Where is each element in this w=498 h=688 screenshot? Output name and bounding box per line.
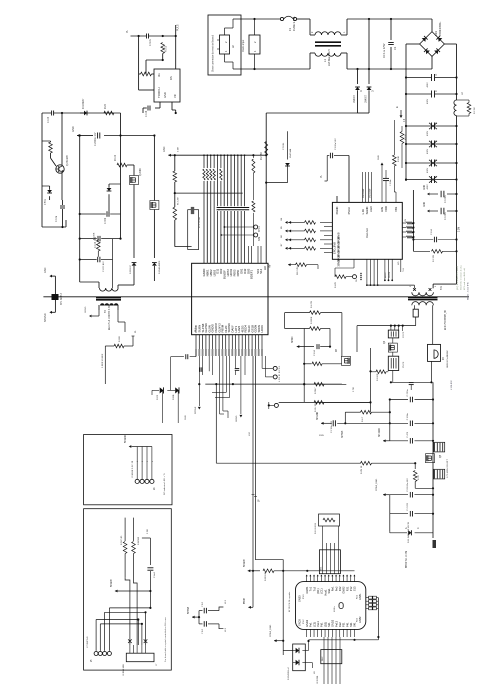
svg-text:(C1): (C1) xyxy=(320,588,324,593)
svg-text:R 5M7: R 5M7 xyxy=(315,387,317,394)
svg-text:R 7K: R 7K xyxy=(418,475,420,480)
svg-text:L 5GL80Y: L 5GL80Y xyxy=(451,380,453,390)
svg-text:C 100u: C 100u xyxy=(407,412,409,420)
svg-text:GNB0: GNB0 xyxy=(299,595,302,602)
svg-text:AT 89 C4-24 crystals: AT 89 C4-24 crystals xyxy=(288,591,291,612)
svg-text:GND2: GND2 xyxy=(305,619,309,627)
svg-text:R.2M 58: R.2M 58 xyxy=(361,465,363,474)
svg-text:HV: HV xyxy=(269,264,272,268)
svg-text:SGND: SGND xyxy=(365,207,369,215)
svg-text:R 2.2K: R 2.2K xyxy=(474,107,476,114)
svg-text:BOOT: BOOT xyxy=(385,271,387,278)
svg-text:GND: GND xyxy=(163,146,166,152)
svg-text:EPD_8NB: EPD_8NB xyxy=(333,242,337,254)
svg-text:1N4148W: 1N4148W xyxy=(370,189,372,198)
svg-text:(D2): (D2) xyxy=(323,622,327,627)
svg-text:C 104: C 104 xyxy=(431,228,433,235)
svg-text:R 10R: R 10R xyxy=(398,156,400,162)
svg-text:D 1N4937: D 1N4937 xyxy=(83,98,85,109)
svg-text:C 10u: C 10u xyxy=(56,215,58,222)
svg-text:VDD: VDD xyxy=(384,206,388,212)
svg-text:R 680K: R 680K xyxy=(311,316,313,324)
svg-text:BBOP SC 10.7M: BBOP SC 10.7M xyxy=(406,551,408,568)
svg-text:C5 C6: C5 C6 xyxy=(403,361,405,368)
svg-text:fitted Ghz monitors it also,: fitted Ghz monitors it also, xyxy=(460,264,463,290)
svg-text:D: D xyxy=(360,90,363,92)
svg-text:(C2): (C2) xyxy=(312,622,316,627)
svg-text:(R7) is marked 1% used,: (R7) is marked 1% used, xyxy=(456,266,459,290)
svg-text:LD: LD xyxy=(314,671,316,674)
svg-text:C 100n: C 100n xyxy=(390,178,392,186)
svg-text:HV: HV xyxy=(263,266,267,270)
svg-text:D 1N5819 x2: D 1N5819 x2 xyxy=(288,666,290,680)
svg-text:GNB2: GNB2 xyxy=(359,616,362,623)
svg-text:Z 5V1: Z 5V1 xyxy=(45,198,47,205)
svg-text:400V: 400V xyxy=(427,167,429,173)
svg-text:J3 4N5K 0.5V .28: J3 4N5K 0.5V .28 xyxy=(132,460,134,478)
svg-text:2.7M: 2.7M xyxy=(353,387,355,392)
svg-text:3.5M: 3.5M xyxy=(178,147,180,152)
svg-text:Tx1: Tx1 xyxy=(309,586,313,591)
svg-text:BDEF1: BDEF1 xyxy=(250,270,254,279)
svg-text:GND: GND xyxy=(72,126,75,132)
svg-text:C 472: C 472 xyxy=(105,217,107,224)
svg-text:GND: GND xyxy=(44,267,47,273)
svg-text:C 100n 50V: C 100n 50V xyxy=(335,138,337,150)
svg-text:1N4744A: 1N4744A xyxy=(289,148,292,158)
svg-text:SPGND: SPGND xyxy=(317,411,319,420)
svg-text:UT 8NP NG: UT 8NP NG xyxy=(87,636,89,648)
svg-text:SGND: SGND xyxy=(85,306,87,313)
svg-text:400V: 400V xyxy=(427,184,429,190)
svg-text:R 22: R 22 xyxy=(105,103,107,109)
svg-text:C: C xyxy=(435,140,438,142)
svg-text:(D1): (D1) xyxy=(316,588,320,593)
svg-text:C 4n3: C 4n3 xyxy=(154,571,156,578)
svg-text:R 100: R 100 xyxy=(115,154,117,161)
svg-text:1N4007: 1N4007 xyxy=(366,94,368,103)
svg-text:P1.2: P1.2 xyxy=(303,619,305,624)
svg-text:Q 2SC945: Q 2SC945 xyxy=(67,155,69,166)
svg-text:For board with a crystal contr: For board with a crystal controlled xx M… xyxy=(164,616,167,662)
svg-text:D FR107: D FR107 xyxy=(130,264,132,274)
svg-text:Manufact: Manufact xyxy=(366,228,369,238)
svg-text:R 680: R 680 xyxy=(119,335,121,342)
svg-text:R8 2.2M: R8 2.2M xyxy=(297,267,299,275)
svg-text:J8 5V8B: J8 5V8B xyxy=(317,675,319,684)
svg-text:T#1: T#1 xyxy=(440,285,443,290)
svg-text:CON5_GND: CON5_GND xyxy=(270,624,272,637)
svg-text:PVCC: PVCC xyxy=(347,207,351,215)
svg-text:SP GND: SP GND xyxy=(379,428,381,437)
svg-text:5P5N8: 5P5N8 xyxy=(188,606,190,614)
svg-text:GND: GND xyxy=(424,202,426,207)
svg-text:1N4007: 1N4007 xyxy=(354,94,356,103)
svg-text:4 MHz: 4 MHz xyxy=(334,606,336,612)
svg-text:C: C xyxy=(435,122,438,124)
svg-text:GND2: GND2 xyxy=(331,619,335,627)
svg-text:Re2: Re2 xyxy=(338,622,342,627)
svg-text:R.10 100 B: R.10 100 B xyxy=(315,523,317,534)
svg-text:BR1: BR1 xyxy=(434,30,438,36)
svg-text:C R.5: C R.5 xyxy=(202,628,204,634)
svg-text:R 100K: R 100K xyxy=(94,232,96,240)
svg-text:GNB2: GNB2 xyxy=(342,586,346,594)
svg-text:PULS: PULS xyxy=(177,24,180,31)
svg-text:5V25: 5V25 xyxy=(157,394,159,400)
svg-text:C: C xyxy=(435,74,438,76)
svg-text:R 4.7M: R 4.7M xyxy=(311,301,313,308)
svg-text:C: C xyxy=(435,90,438,92)
svg-text:R.88 10K: R.88 10K xyxy=(265,571,267,581)
svg-text:Vin: Vin xyxy=(157,73,161,77)
svg-text:C 100n: C 100n xyxy=(445,195,447,203)
svg-text:D 1N4148/FR: D 1N4148/FR xyxy=(159,260,161,274)
svg-text:E: E xyxy=(395,106,399,108)
svg-text:R 47K: R 47K xyxy=(405,134,407,140)
svg-text:PGND: PGND xyxy=(335,207,339,215)
svg-text:5PGN8: 5PGN8 xyxy=(244,559,246,567)
svg-text:OUTB: OUTB xyxy=(389,271,391,278)
svg-text:SGND: SGND xyxy=(236,415,238,422)
svg-text:Tx2: Tx2 xyxy=(312,586,316,591)
svg-text:C 4.7u: C 4.7u xyxy=(150,39,152,46)
svg-text:C 103: C 103 xyxy=(48,116,50,123)
svg-text:C.2 68u 400: C.2 68u 400 xyxy=(331,420,333,433)
svg-text:P21: P21 xyxy=(345,586,349,591)
svg-text:Vout1: Vout1 xyxy=(323,589,327,596)
svg-text:TORCH: TORCH xyxy=(157,87,161,98)
svg-text:GND: GND xyxy=(185,415,187,420)
svg-text:Vss1: Vss1 xyxy=(316,621,320,627)
svg-text:B.2 S.1: B.2 S.1 xyxy=(279,365,281,373)
svg-text:SPKN: SPKN xyxy=(292,336,294,343)
svg-text:D: D xyxy=(372,90,375,92)
svg-text:EMI filter 10mH: EMI filter 10mH xyxy=(328,49,331,66)
svg-text:NTC 52.8B: NTC 52.8B xyxy=(199,217,201,228)
svg-text:Pe1: Pe1 xyxy=(309,622,313,627)
svg-text:1N4148W: 1N4148W xyxy=(363,189,365,198)
svg-text:BBNO - C LO 8 W: BBNO - C LO 8 W xyxy=(468,281,470,300)
svg-text:L.IN: L.IN xyxy=(361,209,365,214)
svg-text:2.2M: 2.2M xyxy=(147,529,149,534)
svg-text:HO: HO xyxy=(398,261,400,265)
svg-text:C 222 1KV: C 222 1KV xyxy=(103,261,105,272)
svg-text:GNB1: GNB1 xyxy=(359,593,362,600)
svg-text:EFD 750388PB_8K: EFD 750388PB_8K xyxy=(445,309,447,330)
svg-text:C: C xyxy=(435,176,438,178)
svg-text:C 5V6L: C 5V6L xyxy=(283,142,285,150)
svg-text:CON5_GND: CON5_GND xyxy=(376,478,378,491)
svg-text:C2 C3: C2 C3 xyxy=(403,331,405,338)
svg-text:R BGB8: R BGB8 xyxy=(138,536,140,545)
svg-text:R 100R: R 100R xyxy=(377,373,379,381)
svg-text:GND: GND xyxy=(424,185,426,190)
svg-text:W 2.2M: W 2.2M xyxy=(178,197,180,205)
svg-text:R 2H 38.8: R 2H 38.8 xyxy=(315,401,317,412)
svg-text:Re1: Re1 xyxy=(331,586,335,591)
svg-text:5595: 5595 xyxy=(319,435,325,437)
svg-text:400V: 400V xyxy=(427,130,429,136)
svg-text:Q 2N60: Q 2N60 xyxy=(140,167,142,176)
svg-text:SP5N8: SP5N8 xyxy=(342,430,344,438)
svg-text:C 100n: C 100n xyxy=(445,212,447,220)
svg-text:GND: GND xyxy=(163,92,167,98)
svg-text:5V8B: 5V8B xyxy=(173,394,175,400)
svg-text:Pd1: Pd1 xyxy=(320,622,324,627)
svg-text:P12: P12 xyxy=(349,586,353,591)
svg-text:X2 0.1u 275V: X2 0.1u 275V xyxy=(383,43,386,58)
svg-text:R 47K: R 47K xyxy=(335,281,337,288)
svg-text:R 5GT4G: R 5GT4G xyxy=(121,535,123,545)
svg-text:38NI8: 38NI8 xyxy=(337,259,341,266)
svg-text:R 2.2M: R 2.2M xyxy=(433,255,435,262)
svg-text:B5N8: B5N8 xyxy=(244,598,246,604)
svg-text:S TL100N 03 L8P 7: S TL100N 03 L8P 7 xyxy=(447,458,449,478)
svg-text:5PGN8: 5PGN8 xyxy=(195,406,197,414)
svg-text:FUSE 3.15A: FUSE 3.15A xyxy=(292,16,296,31)
svg-text:5PGN8: 5PGN8 xyxy=(111,579,113,587)
svg-text:C: C xyxy=(435,159,438,161)
svg-text:Slave connector (to next ctrl: Slave connector (to next ctrl board) xyxy=(212,35,215,72)
svg-text:D.11 B40% 58 16V W: D.11 B40% 58 16V W xyxy=(408,521,410,543)
svg-text:EE19 5+6 100KHZ 3.3W: EE19 5+6 100KHZ 3.3W xyxy=(109,304,111,330)
svg-text:C 470: C 470 xyxy=(407,431,409,438)
svg-text:LD0N: LD0N xyxy=(260,325,264,332)
svg-text:C 220u: C 220u xyxy=(407,389,409,397)
svg-text:Pe2: Pe2 xyxy=(334,586,338,591)
svg-text:HIN: HIN xyxy=(380,207,384,212)
svg-text:4P1 and was 4k99 old,: 4P1 and was 4k99 old, xyxy=(464,267,466,290)
svg-text:VB1: VB1 xyxy=(394,206,398,212)
svg-text:DN: DN xyxy=(169,76,173,80)
svg-text:C 104: C 104 xyxy=(146,110,148,117)
svg-text:NT1 NCB-3: NT1 NCB-3 xyxy=(61,292,63,305)
svg-text:C.8 100u 16V: C.8 100u 16V xyxy=(407,478,409,492)
svg-text:GND0: GND0 xyxy=(299,619,302,626)
svg-text:NTC1: NTC1 xyxy=(259,225,261,232)
svg-text:5.8M8 SGND8: 5.8M8 SGND8 xyxy=(102,353,104,368)
svg-text:J6 8NB 98B: J6 8NB 98B xyxy=(123,664,125,676)
svg-text:SB5100 5x8B08M: SB5100 5x8B08M xyxy=(447,350,449,368)
svg-text:P1.0: P1.0 xyxy=(303,594,305,599)
svg-text:400V: 400V xyxy=(427,82,429,88)
svg-text:Mains input: Mains input xyxy=(242,39,245,52)
svg-text:C 104: C 104 xyxy=(314,349,316,356)
svg-text:R 4.7: R 4.7 xyxy=(362,416,364,422)
svg-text:SPGND: SPGND xyxy=(44,313,47,322)
svg-text:400V: 400V xyxy=(427,98,429,104)
svg-text:N.M.: N.M. xyxy=(259,236,261,241)
svg-text:JP: JP xyxy=(259,499,261,502)
svg-text:P31: P31 xyxy=(342,622,346,627)
svg-text:2W06/005W+: 2W06/005W+ xyxy=(439,21,442,36)
svg-text:C1: C1 xyxy=(393,46,397,50)
svg-text:C 2200u 10V: C 2200u 10V xyxy=(95,132,97,146)
svg-text:Sla1: Sla1 xyxy=(327,588,331,594)
svg-text:S13: S13 xyxy=(353,586,357,591)
svg-text:AG0: AG0 xyxy=(369,206,373,212)
svg-text:R 2.2M: R 2.2M xyxy=(261,153,263,160)
svg-text:400V: 400V xyxy=(427,148,429,154)
svg-text:RC indicator LED + TL: RC indicator LED + TL xyxy=(163,472,166,495)
svg-text:R 100: R 100 xyxy=(166,45,168,52)
svg-text:GNB1: GNB1 xyxy=(305,586,309,594)
svg-text:C.2 220: C.2 220 xyxy=(407,502,409,510)
svg-text:P41: P41 xyxy=(345,622,349,627)
svg-text:C R.5: C R.5 xyxy=(202,601,204,607)
svg-text:GND: GND xyxy=(378,155,380,160)
svg-text:2.2M: 2.2M xyxy=(459,227,461,232)
svg-text:Pe13: Pe13 xyxy=(334,620,338,627)
svg-text:VR: VR xyxy=(173,94,177,98)
svg-text:S21: S21 xyxy=(327,622,331,627)
svg-text:Pd2: Pd2 xyxy=(338,586,342,591)
svg-text:S31: S31 xyxy=(349,622,353,627)
svg-text:5PGND: 5PGND xyxy=(125,435,127,443)
svg-text:L.2 N.M: L.2 N.M xyxy=(279,374,281,382)
